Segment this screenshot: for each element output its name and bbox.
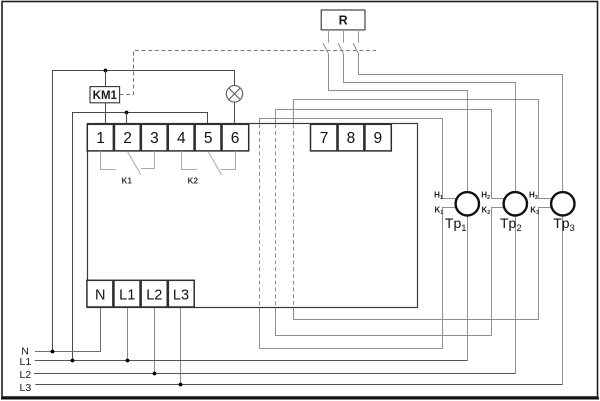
contact K1 terminal3 arm bbox=[141, 151, 155, 169]
contact K1 terminal1 arm bbox=[101, 151, 116, 170]
contact K2 terminal6 arm bbox=[221, 151, 236, 170]
svg-text:4: 4 bbox=[177, 130, 186, 147]
contact blade 3 of KM1 bbox=[353, 43, 358, 54]
wire R stub 3 bbox=[358, 30, 360, 43]
bus L1 bbox=[35, 360, 468, 362]
wire KM1 top stub bbox=[105, 71, 107, 87]
wire KM1 bottom stub to terminal 1 bbox=[105, 103, 107, 125]
wire stub down to terminal 2 bbox=[126, 113, 128, 125]
wire terminal L3 down to L3 bus bbox=[180, 308, 182, 385]
wire secondary loop 1 K1 side bbox=[260, 208, 457, 349]
wire R stub 2 bbox=[343, 30, 345, 43]
svg-text:R: R bbox=[339, 14, 348, 28]
wire terminal N down to N bus bbox=[35, 308, 101, 352]
svg-text:2: 2 bbox=[123, 130, 132, 147]
wire R stub 1 bbox=[328, 30, 330, 43]
wire N riser and horizontal feed to lamp bbox=[53, 71, 235, 352]
svg-text:L3: L3 bbox=[173, 287, 189, 303]
svg-text:5: 5 bbox=[204, 130, 213, 147]
svg-text:8: 8 bbox=[347, 130, 356, 147]
wire contact2 through Tp2 primary to L2 bus bbox=[344, 54, 516, 374]
node dot L2 bus terminal wire bbox=[153, 372, 157, 376]
terminal block 7-9 bbox=[311, 124, 392, 151]
svg-text:L1: L1 bbox=[20, 356, 32, 368]
wire L1 tap feeding terminals 2 and 5 bbox=[73, 113, 208, 361]
svg-text:1: 1 bbox=[96, 130, 105, 147]
svg-text:KM1: KM1 bbox=[93, 90, 118, 102]
contact K2 blade from terminal5 bbox=[208, 152, 221, 175]
svg-text:L2: L2 bbox=[146, 287, 162, 303]
wire secondary loop 3 K3 side bbox=[294, 208, 552, 320]
wire contact3 through Tp3 primary to L3 bus bbox=[359, 54, 563, 385]
wire loop 3 dashed through meter bbox=[293, 124, 295, 307]
wire secondary loop 3 H3 side bbox=[294, 100, 552, 199]
wire secondary loop 1 H1 side bbox=[260, 119, 457, 199]
bus L2 bbox=[34, 373, 515, 375]
current transformer Tp2 bbox=[504, 192, 527, 215]
terminal block N L1 L2 L3 bbox=[87, 280, 194, 307]
svg-text:N: N bbox=[95, 287, 105, 303]
meter device outline bbox=[88, 124, 418, 308]
svg-text:6: 6 bbox=[231, 130, 240, 147]
node junction dot above KM1 bbox=[104, 69, 108, 73]
svg-text:L1: L1 bbox=[119, 287, 135, 303]
contact blade 2 of KM1 bbox=[338, 43, 343, 54]
wire contact1 through Tp1 primary to L1 bus bbox=[329, 54, 468, 361]
svg-text:3: 3 bbox=[150, 130, 159, 147]
current transformer Tp1 bbox=[456, 192, 479, 215]
terminal block 1-6 bbox=[87, 124, 248, 151]
contact blade 1 of KM1 bbox=[323, 43, 328, 54]
svg-text:K1: K1 bbox=[122, 177, 133, 186]
lamp HL signal bbox=[226, 86, 242, 102]
current transformer Tp3 bbox=[551, 192, 574, 215]
node dot N bus left riser bbox=[51, 350, 55, 354]
node dot L1 bus terminal wire bbox=[126, 359, 130, 363]
node dot L3 bus terminal wire bbox=[179, 383, 183, 387]
bus L3 bbox=[35, 384, 562, 386]
dashed mechanical link KM1 to R contacts bbox=[120, 51, 376, 95]
wire lamp bottom stub to terminal 6 bbox=[234, 102, 236, 125]
wire loop 1 dashed through meter bbox=[259, 124, 261, 307]
contact K2 terminal4 arm bbox=[182, 151, 197, 170]
wire secondary loop 2 K2 side bbox=[276, 208, 505, 336]
wire secondary loop 2 H2 side bbox=[276, 110, 505, 199]
wire loop 2 dashed through meter bbox=[275, 124, 277, 307]
wire terminal L2 down to L2 bus bbox=[154, 308, 156, 374]
node dot L1 bus left riser bbox=[71, 359, 75, 363]
svg-text:7: 7 bbox=[320, 130, 329, 147]
contactor coil KM1 bbox=[90, 87, 120, 103]
load box R bbox=[321, 10, 365, 30]
node junction dot above terminal 2 bbox=[125, 111, 129, 115]
svg-text:L3: L3 bbox=[20, 382, 32, 394]
contact K1 blade from terminal2 bbox=[128, 152, 141, 175]
svg-text:9: 9 bbox=[373, 130, 382, 147]
svg-text:L2: L2 bbox=[20, 369, 32, 381]
svg-text:K2: K2 bbox=[188, 177, 199, 186]
wire terminal L1 down to L1 bus bbox=[127, 308, 129, 361]
